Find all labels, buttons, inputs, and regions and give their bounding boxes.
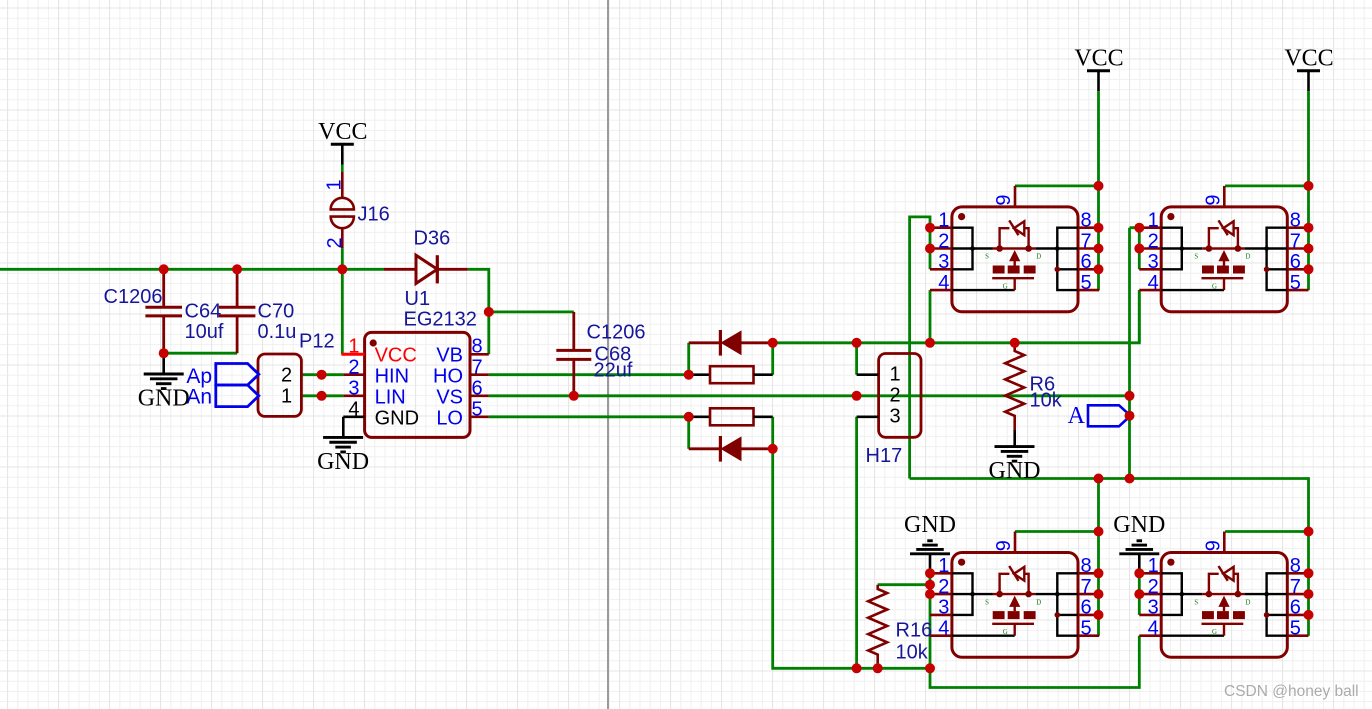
junction J9 (688.7,374.7) (684, 370, 694, 380)
junction J17 (877.7,668.3) (873, 663, 883, 673)
harness entry An (186, 385, 258, 409)
sheet boundary line (607, 0, 609, 709)
svg-text:9: 9 (1202, 540, 1224, 551)
svg-text:7: 7 (1081, 230, 1092, 252)
svg-text:1: 1 (324, 179, 346, 190)
svg-text:7: 7 (1081, 576, 1092, 598)
svg-text:VS: VS (436, 386, 463, 408)
wire HIN (301, 373, 343, 376)
svg-text:22uf: 22uf (594, 360, 633, 382)
svg-text:HO: HO (433, 365, 463, 387)
svg-text:4: 4 (1148, 272, 1159, 294)
C70 labels (258, 301, 297, 343)
svg-text:3: 3 (889, 405, 900, 427)
bottom-right pin numbers (1148, 540, 1301, 639)
svg-text:VCC: VCC (1284, 46, 1333, 72)
wire LIN (301, 394, 343, 397)
svg-text:6: 6 (1290, 597, 1301, 619)
dual MOSFET module top-right (1139, 186, 1308, 312)
junction J35 (1098.5,531.5) (1094, 527, 1104, 537)
svg-text:2: 2 (281, 365, 292, 387)
svg-text:An: An (186, 386, 212, 409)
svg-text:S: S (985, 254, 989, 261)
junction J16 (856.6,668.3) (852, 663, 862, 673)
svg-text:1: 1 (889, 363, 900, 385)
svg-text:9: 9 (1202, 194, 1224, 205)
svg-text:1: 1 (938, 555, 949, 577)
H17 label (866, 445, 903, 467)
junction J33 (1098.5,478.5) (1094, 474, 1104, 484)
junction J12 (772.7,448.8) (768, 444, 778, 454)
svg-text:C1206: C1206 (587, 322, 646, 344)
svg-text:5: 5 (472, 399, 483, 421)
capacitor C68 (556, 312, 591, 396)
svg-text:LIN: LIN (375, 386, 406, 408)
wire R16 top link (878, 583, 930, 586)
bottom-left pin numbers (938, 540, 1091, 639)
wire VCC rail (0, 268, 384, 271)
svg-text:4: 4 (938, 618, 949, 640)
diode (HO gate, anti-parallel) (689, 330, 773, 356)
svg-text:7: 7 (1290, 230, 1301, 252)
junction J47 (1308.5,614.9) (1304, 610, 1314, 620)
wire TR module source link (1130, 228, 1140, 270)
ground (below R6) (989, 447, 1041, 485)
power symbol VCC (top-right module) (1284, 46, 1333, 92)
D36 label (414, 228, 451, 250)
H17 pin wires (857, 375, 879, 417)
junction J38 (930,584.7) (925, 580, 935, 590)
R6 labels (1030, 373, 1063, 411)
header H17 (879, 354, 921, 438)
wire VB node to C68 (489, 310, 574, 313)
wire J16 pin2 to rail (341, 248, 344, 269)
svg-text:S: S (985, 599, 989, 606)
junction J27 (1098.5,269.3) (1094, 264, 1104, 274)
wire low gate net (773, 449, 930, 669)
svg-text:G: G (1212, 629, 1217, 636)
wire VS (489, 394, 1130, 397)
svg-text:6: 6 (472, 378, 483, 400)
diode (LO gate, anti-parallel) (689, 436, 773, 462)
svg-text:VCC: VCC (375, 344, 417, 366)
svg-text:GND: GND (1113, 512, 1165, 538)
junction J31 (1129.5,395.8) (1125, 391, 1135, 401)
svg-text:0.1u: 0.1u (258, 321, 297, 343)
junction J6 (321.6,374.7) (317, 370, 327, 380)
junction J18 (930,668.3) (925, 663, 935, 673)
junction J42 (1098.5,573.3) (1094, 568, 1104, 578)
svg-text:3: 3 (938, 251, 949, 273)
svg-text:5: 5 (1290, 618, 1301, 640)
svg-text:C64: C64 (185, 301, 222, 323)
junction J34 (1129.5,478.5) (1125, 474, 1135, 484)
svg-text:H17: H17 (866, 445, 903, 467)
svg-text:G: G (1003, 629, 1008, 636)
junction J36 (1308.5,531.5) (1304, 527, 1314, 537)
jumper J16 (331, 172, 354, 248)
wire left ground drop (162, 353, 165, 374)
ground (U1 pin 4) (317, 437, 369, 475)
wire TL tab9 (1015, 184, 1099, 187)
wire GND drop BR module (1138, 554, 1141, 574)
svg-text:C70: C70 (258, 301, 295, 323)
svg-text:D: D (1246, 599, 1251, 606)
wire R6 to ground (1013, 430, 1016, 447)
svg-text:2: 2 (348, 356, 359, 378)
wire H17 pin1 drop (855, 343, 858, 375)
junction J28 (1308.5,227.7) (1304, 223, 1314, 233)
VCC stem wire (341, 165, 344, 173)
wire high gate net (773, 290, 1140, 343)
wire LO combo right (771, 417, 774, 449)
junction J13 (856.6,342.8) (852, 338, 862, 348)
wire U1 GND pin to ground (343, 417, 364, 438)
svg-text:D36: D36 (414, 228, 451, 250)
svg-text:1: 1 (938, 210, 949, 232)
wire TR module gate drop (1138, 290, 1141, 343)
svg-text:10k: 10k (896, 642, 929, 664)
dual MOSFET module bottom-right (1139, 532, 1308, 658)
wire BR tab9 (1225, 530, 1308, 533)
svg-text:5: 5 (1081, 618, 1092, 640)
connector P12 (258, 354, 301, 416)
svg-text:GND: GND (904, 512, 956, 538)
svg-text:3: 3 (938, 597, 949, 619)
dual MOSFET module bottom-left (930, 532, 1099, 658)
junction J19 (930,227.7) (925, 223, 935, 233)
svg-text:VB: VB (436, 344, 463, 366)
wire VCC drop TL (1097, 91, 1100, 290)
junction J48 (1014.7,342.8) (1010, 338, 1020, 348)
capacitor C70 (219, 269, 256, 353)
svg-text:P12: P12 (299, 330, 335, 352)
wire U1 VCC pin drop (341, 269, 344, 354)
svg-text:3: 3 (1148, 251, 1159, 273)
wire BL module drain column (1097, 479, 1100, 636)
svg-text:EG2132: EG2132 (404, 308, 477, 330)
svg-text:A: A (1068, 403, 1086, 429)
junction J22 (1139.3,248.5) (1134, 244, 1144, 254)
junction J41 (1139.3,594.1) (1134, 589, 1144, 599)
junction J3 (342.3,269.3) (337, 264, 347, 274)
svg-text:7: 7 (472, 356, 483, 378)
ground (bottom-right module) (1113, 512, 1165, 554)
svg-text:J16: J16 (358, 204, 390, 226)
junction J46 (1308.5,594.1) (1304, 589, 1314, 599)
svg-text:1: 1 (348, 336, 359, 358)
C64 labels (185, 301, 224, 343)
C1206 footprint label (left) (104, 286, 163, 308)
R16 labels (896, 619, 933, 663)
junction J1 (163.7,269.3) (159, 264, 169, 274)
svg-text:4: 4 (1148, 618, 1159, 640)
svg-text:GND: GND (375, 407, 419, 429)
U1 designator labels (404, 288, 477, 330)
svg-text:1: 1 (1148, 210, 1159, 232)
svg-text:2: 2 (938, 576, 949, 598)
J16 labels (324, 179, 390, 248)
svg-text:2: 2 (1148, 230, 1159, 252)
wire BR module drain column (1307, 532, 1310, 636)
svg-text:8: 8 (1081, 555, 1092, 577)
svg-text:8: 8 (472, 336, 483, 358)
wire phase node A (910, 479, 1309, 532)
svg-text:3: 3 (1148, 597, 1159, 619)
svg-text:D: D (1036, 254, 1041, 261)
svg-text:R16: R16 (896, 619, 933, 641)
svg-text:GND: GND (317, 449, 369, 475)
svg-text:3: 3 (348, 378, 359, 400)
top-left pin numbers (938, 194, 1091, 293)
svg-text:C1206: C1206 (104, 286, 163, 308)
svg-text:U1: U1 (405, 288, 431, 310)
svg-text:1: 1 (1148, 555, 1159, 577)
junction J8 (163.7,353.2) (159, 348, 169, 358)
junction J45 (1308.5,573.3) (1304, 568, 1314, 578)
wire VCC drop TR (1307, 91, 1310, 290)
capacitor C64 (145, 269, 182, 353)
wire TR source / A net drop (1128, 228, 1131, 479)
svg-text:8: 8 (1290, 210, 1301, 232)
svg-text:2: 2 (938, 230, 949, 252)
wire LO (489, 415, 689, 418)
junction J43 (1098.5,594.1) (1094, 589, 1104, 599)
svg-text:6: 6 (1290, 251, 1301, 273)
junction J2 (237.1,269.3) (232, 264, 242, 274)
wire D36 cathode to VB node (468, 269, 489, 354)
op-amp / gate driver U1 EG2132 (341, 332, 488, 437)
junction J39 (930,594.1) (925, 589, 935, 599)
wire GND drop BL module (929, 554, 932, 574)
junction J26 (1098.5,248.5) (1094, 244, 1104, 254)
junction J25 (1098.5,227.7) (1094, 223, 1104, 233)
wire BR module source chain (1138, 573, 1141, 615)
svg-text:G: G (1212, 284, 1217, 291)
svg-text:9: 9 (993, 540, 1015, 551)
C68 labels (587, 322, 646, 382)
junction J30 (1308.5,269.3) (1304, 264, 1314, 274)
svg-text:5: 5 (1290, 272, 1301, 294)
U1 pin names (375, 344, 463, 429)
svg-text:CSDN @honey ball: CSDN @honey ball (1224, 683, 1359, 700)
svg-text:2: 2 (324, 237, 346, 248)
wire HO (489, 373, 689, 376)
junction J7 (321.6,395.8) (317, 391, 327, 401)
svg-text:S: S (1194, 599, 1198, 606)
junction J40 (1139.3,573.3) (1134, 568, 1144, 578)
svg-text:7: 7 (1290, 576, 1301, 598)
dual MOSFET module top-left (930, 186, 1099, 312)
junction J37 (930,573.3) (925, 568, 935, 578)
svg-text:VCC: VCC (1074, 46, 1123, 72)
junction J24 (1308.5,185.9) (1304, 181, 1314, 191)
svg-text:LO: LO (436, 407, 463, 429)
junction J44 (1098.5,614.9) (1094, 610, 1104, 620)
wire TR tab9 (1225, 184, 1308, 187)
svg-text:1: 1 (281, 386, 292, 408)
wire BL tab9 (1015, 530, 1099, 533)
junction J14 (930,342.8) (925, 338, 935, 348)
svg-text:2: 2 (889, 384, 900, 406)
svg-text:GND: GND (989, 458, 1041, 484)
svg-text:8: 8 (1290, 555, 1301, 577)
U1 pin numbers (348, 336, 482, 421)
junction J4 (488.8,311.9) (484, 307, 494, 317)
svg-text:8: 8 (1081, 210, 1092, 232)
svg-text:G: G (1003, 284, 1008, 291)
wire TL module source chain (910, 217, 930, 479)
junction J20 (930,248.5) (925, 244, 935, 254)
junction J32 (1129.5,415.7) (1125, 411, 1135, 421)
svg-text:9: 9 (993, 194, 1015, 205)
wire low gate to BR module gate (930, 636, 1139, 688)
svg-text:VCC: VCC (318, 119, 367, 145)
diode D36 (384, 255, 468, 283)
svg-text:10k: 10k (1030, 390, 1063, 412)
svg-text:10uf: 10uf (185, 321, 224, 343)
svg-text:GND: GND (138, 386, 190, 412)
watermark (1224, 683, 1359, 700)
junction J15 (856.6,395.8) (852, 391, 862, 401)
power symbol VCC (above J16) (318, 119, 367, 165)
wire TL module gate drop (929, 290, 932, 343)
junction J10 (688.7,416.8) (684, 412, 694, 422)
svg-text:6: 6 (1081, 251, 1092, 273)
svg-text:D: D (1036, 599, 1041, 606)
ground (bottom-left module) (904, 512, 956, 554)
port A (1068, 403, 1131, 429)
wire BL module source chain (929, 573, 932, 668)
junction J21 (1139.3,227.7) (1134, 223, 1144, 233)
ground (decoupling caps) (138, 374, 190, 412)
junction J23 (1098.5,185.9) (1094, 181, 1104, 191)
resistor (LO gate series) (689, 408, 773, 425)
svg-text:D: D (1246, 254, 1251, 261)
top-right pin numbers (1148, 194, 1301, 293)
resistor R16 (868, 585, 887, 663)
power symbol VCC (top-left module) (1074, 46, 1123, 92)
P12 label (299, 330, 335, 352)
resistor R6 (1005, 343, 1024, 430)
svg-text:2: 2 (1148, 576, 1159, 598)
junction J11 (772.7,342.8) (768, 338, 778, 348)
harness entry Ap (186, 364, 258, 389)
svg-text:6: 6 (1081, 597, 1092, 619)
wire R16 bottom (876, 663, 879, 668)
svg-text:S: S (1194, 254, 1198, 261)
svg-text:5: 5 (1081, 272, 1092, 294)
svg-text:HIN: HIN (375, 365, 409, 387)
resistor (HO gate series) (689, 366, 773, 383)
wire HO combo left (687, 343, 690, 375)
junction J5 (573.8,395.8) (569, 391, 579, 401)
wire LO combo left (687, 417, 690, 449)
wire HO combo right (771, 343, 774, 375)
wire cap bottom to ground node (164, 352, 237, 355)
wire H17 pin3 drop (855, 417, 858, 669)
junction J29 (1308.5,248.5) (1304, 244, 1314, 254)
svg-text:4: 4 (938, 272, 949, 294)
